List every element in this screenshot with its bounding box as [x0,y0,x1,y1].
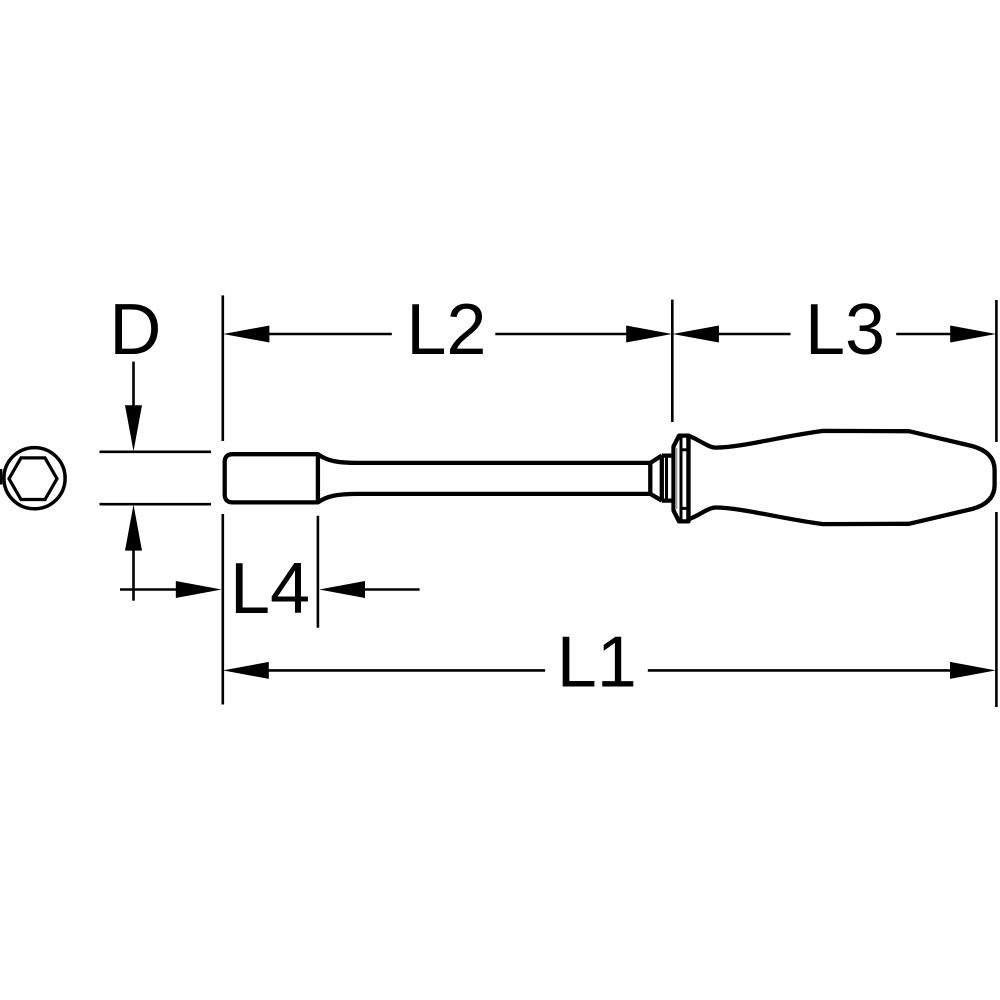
hex socket end view: outer circle [4,448,65,509]
socket diameter line top [100,450,212,453]
handle [689,431,995,524]
flange inner horizontals [681,448,689,451]
L3 right arrowhead [950,326,996,343]
L1 dimension line [268,669,545,672]
flange gray shading line [675,448,677,509]
extension line L4 right (x=317.9) [317,516,320,628]
extension line left (x=222.8) lower [222,514,225,705]
hex socket end view: hexagon [9,458,57,500]
L3 dimension line [719,333,791,336]
socket body (rounded left) [225,454,318,502]
svg-text:L2: L2 [406,290,486,370]
L2 left arrowhead [223,326,269,343]
collar cylinder [662,456,674,501]
L2 dimension line [269,333,392,336]
svg-text:L1: L1 [557,623,637,703]
L1 right arrowhead [950,662,996,679]
L2 right arrowhead [626,326,672,343]
cone shaft to collar [650,456,662,501]
taper socket to shaft, top [318,454,650,463]
flange inner vertical [680,436,683,522]
L1 left arrowhead [223,662,269,679]
extension line middle (x=672.3) [671,300,674,422]
extension line left (x=222.8) upper [222,295,225,441]
socket diameter line bottom [100,503,212,506]
collar face line [665,456,668,501]
svg-text:L3: L3 [805,290,885,370]
extension line right (x=996.4) upper [995,300,998,442]
taper socket to shaft, bottom [318,494,650,503]
edge sliver left [0,469,2,485]
D dimension lower arrow [132,549,135,601]
L3 left arrowhead [673,326,719,343]
L4 dimension right arrow (outside) [364,588,420,591]
svg-text:D: D [109,290,161,370]
extension line right (x=996.4) lower [995,512,998,707]
svg-text:L4: L4 [230,549,310,629]
L4 dimension left arrow (outside) [120,588,178,591]
flange outline [674,436,689,522]
shaft end face [648,463,652,494]
D dimension upper arrow [132,362,135,407]
